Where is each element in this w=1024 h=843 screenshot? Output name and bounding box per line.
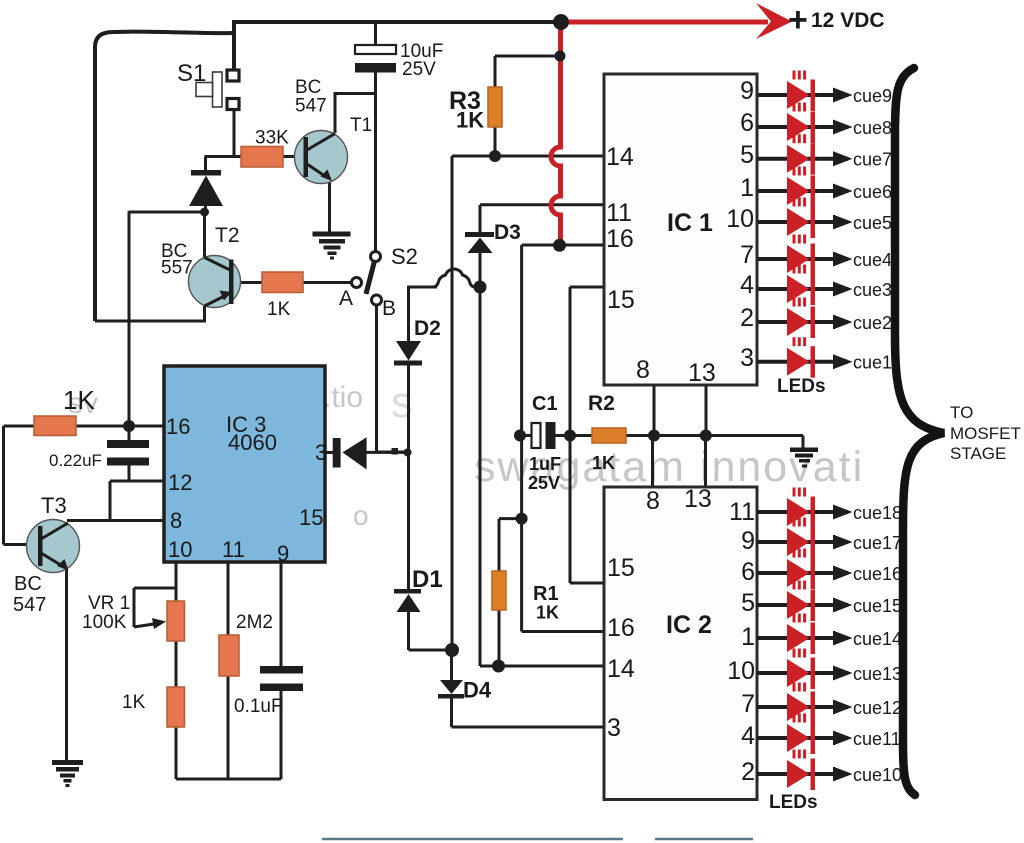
transistor T3 BC547 [27,520,80,573]
svg-text:1K: 1K [267,299,291,320]
wire C1 left stub [520,434,532,437]
svg-text:9: 9 [741,527,755,555]
diode anti T2 triangle [189,176,223,207]
diode D4 triangle [440,680,463,694]
wire D2-D1 vertical net [407,364,410,590]
svg-text:S2: S2 [391,244,418,269]
svg-text:9: 9 [740,77,754,105]
wire IC1 pin13 drop [705,385,708,436]
svg-text:LEDs: LEDs [777,376,826,397]
IC1 4017 box [604,74,757,385]
svg-text:BC: BC [14,573,42,595]
node diode T2 [200,208,209,217]
wire output cue13 [757,671,848,675]
wire D1 bottom to D4 node [409,611,453,650]
LED cue5 [787,208,810,236]
diode D3 bar [465,232,494,237]
svg-text:TO: TO [950,403,973,422]
LED cue4 rays [793,235,796,244]
svg-text:12 VDC: 12 VDC [811,9,885,32]
switch S2 contact top [371,252,381,262]
capacitor 0.22uF plates [107,440,149,448]
arrow cue13 [833,666,853,681]
svg-text:15: 15 [607,286,635,314]
svg-text:cue15: cue15 [853,596,902,616]
capacitor C1 1uF 25V plates [532,423,541,448]
LED cue10 rays [793,750,796,759]
arrow cue16 [833,566,853,581]
node supply top [553,14,569,30]
svg-text:cue17: cue17 [853,533,902,553]
LED cue18 rays [793,488,796,497]
svg-text:7: 7 [740,241,754,269]
wire output cue4 [758,257,848,261]
diode IC3 pin3 triangle [343,437,367,469]
svg-text:o: o [353,500,369,531]
node R3 bottom [489,150,501,162]
LED cue14 [787,624,810,652]
wire IC3 pin9 through 0.1uF [280,562,283,779]
LED cue12 [787,693,810,721]
switch S2 contact A [352,278,362,288]
arrow cue2 [833,315,853,330]
svg-text:11: 11 [222,537,245,562]
svg-text:1K: 1K [63,385,95,415]
svg-text:13: 13 [684,485,712,513]
wire T2 collector to left rail [95,320,205,323]
arrow cue7 [833,151,853,166]
svg-text:4: 4 [741,722,755,750]
svg-text:T2: T2 [215,224,240,247]
svg-text:T1: T1 [350,115,372,136]
wire IC2 pin13 up [704,436,707,488]
wire C1 to R2 [555,434,592,437]
svg-text:1K: 1K [536,603,559,623]
wire output cue12 [757,705,848,709]
svg-text:3: 3 [607,714,621,742]
wire T2 emitter to node [203,212,206,257]
red arrow head [756,3,792,39]
svg-text:D1: D1 [412,566,443,593]
arrow cue14 [833,631,853,646]
ground T3 emitter [52,760,83,765]
svg-text:7: 7 [741,690,755,718]
wire 10uF top stub [374,20,377,46]
wire 0.22uF stubs [128,426,131,482]
arrow cue5 [833,215,853,230]
LED cue17 rays [793,518,796,527]
svg-text:cue11: cue11 [853,729,901,749]
svg-text:547: 547 [13,594,46,616]
wire RC bottom rail [176,778,281,781]
svg-text:cue4: cue4 [853,250,892,270]
svg-text:STAGE: STAGE [950,444,1006,463]
svg-text:0.22uF: 0.22uF [49,451,102,470]
svg-text:cue13: cue13 [853,664,902,684]
wire VR1 wiper arrow [134,624,157,628]
svg-text:14: 14 [607,655,635,683]
junction square [392,448,399,455]
svg-text:1: 1 [740,174,754,202]
resistor 33K [241,147,283,168]
wire diode stub bottom [204,205,207,213]
resistor R3 1K [488,87,502,127]
svg-text:cue16: cue16 [853,564,902,584]
diode D3 triangle [468,238,493,254]
arrow cue12 [833,700,853,715]
svg-text:cue7: cue7 [853,150,892,170]
svg-text:3: 3 [315,440,327,465]
wire output cue18 [757,510,848,514]
LED cue8 [787,113,810,141]
diode D2 triangle [396,341,421,361]
resistor R1 1K [492,571,506,610]
svg-text:VR 1: VR 1 [88,593,130,614]
wire R1 bottom [498,609,501,666]
LED cue9 rays [793,71,796,80]
node R1 top jog [516,513,528,525]
arrow cue3 [833,282,853,297]
svg-text:557: 557 [161,258,193,279]
wire D3 cathode up to IC1 pin11 [480,205,604,233]
wire left rail curve [95,32,232,321]
wire output cue17 [757,540,848,544]
node D4 top [445,643,459,657]
svg-text:2: 2 [740,304,754,332]
node R2 right pin8 [648,430,660,442]
svg-text:2M2: 2M2 [236,612,273,633]
svg-text:5: 5 [740,141,754,169]
LED cue18 [787,498,810,526]
svg-text:6: 6 [740,109,754,137]
LED cue13 [787,659,810,687]
svg-text:IC 2: IC 2 [666,611,712,639]
wire IC1 pin15 net down to IC2 pin15 [570,287,604,583]
svg-text:S1: S1 [177,60,206,87]
diode D4 bar [438,694,464,699]
wire S2 A contact to 1K [303,281,353,284]
svg-text:cue2: cue2 [853,313,892,333]
svg-text:cue10: cue10 [853,765,902,785]
LED cue3 rays [793,265,796,274]
node supply IC1 pin16 [553,239,566,252]
svg-text:T3: T3 [41,493,67,518]
node pin3 diode to B net [404,448,412,456]
ground T1 emitter [313,232,351,237]
LED cue7 [787,145,810,173]
LED cue1 rays [793,337,796,346]
svg-text:11: 11 [729,498,755,526]
LED cue5 rays [793,198,796,207]
resistor 1K timing [167,687,185,727]
capacitor 0.1uF plates [260,666,303,674]
svg-text:16: 16 [606,225,634,253]
LED cue16 rays [793,549,796,558]
arrow cue9 [833,88,853,103]
svg-text:cue14: cue14 [853,629,902,649]
svg-text:1K: 1K [122,692,146,713]
wire diode stub top [204,157,207,172]
LED cue9 [787,81,810,109]
svg-text:cue12: cue12 [853,698,902,718]
wire R1 jog [499,519,522,572]
wire IC1 pin14 [452,155,604,158]
node C1 left [514,430,526,442]
svg-text:10: 10 [726,205,754,233]
svg-text:cue6: cue6 [853,182,892,202]
svg-text:10: 10 [168,537,192,562]
wire ground stub [802,436,805,450]
svg-text:D3: D3 [494,221,521,244]
LED cue10 [787,760,810,788]
svg-text:B: B [382,297,396,320]
diode D2 bar [394,361,422,366]
red vertical supply drop with hops [551,20,561,243]
LED cue2 rays [793,298,796,307]
wire S2 B down [375,304,378,452]
transistor T1 BC547 [295,131,348,184]
svg-text:D4: D4 [463,678,492,703]
svg-text:1uF: 1uF [529,454,561,474]
wire pin12 to pin8 jog [109,481,112,522]
wire IC1 pin16 to VDD vertical [522,245,604,632]
wire top supply rail [234,20,561,24]
wire T2 collector drop [203,306,206,323]
wire VR1 wiper loop [134,588,176,627]
svg-text:cue9: cue9 [853,86,892,106]
wire output cue5 [758,220,848,224]
svg-text:cue18: cue18 [853,503,902,523]
arrow cue17 [833,535,853,550]
wire node to T2 vertical [129,211,206,427]
wire D3 anode node down to IC2 pin14 [480,252,604,666]
wire output cue15 [757,603,848,607]
svg-text:16: 16 [166,414,190,439]
wire D2 anode up and right [409,287,438,342]
wire IC1 pin8 drop [653,385,656,436]
wire S1 bottom to 33K [205,110,242,158]
svg-text:MOSFET: MOSFET [950,424,1021,443]
arrow cue11 [833,731,853,746]
svg-text:16: 16 [607,614,635,642]
svg-text:33K: 33K [255,128,289,149]
wire R2 to ground [626,434,803,437]
wire output cue9 [758,93,848,97]
node R2 right pin13 [700,430,712,442]
wire 1K to pin16 node [4,425,165,428]
LED cue7 rays [793,134,796,143]
LED cue1 [787,348,810,376]
wire output cue16 [757,571,848,575]
svg-text:11: 11 [606,199,632,227]
LED cue2 [787,308,810,336]
svg-text:5: 5 [741,589,755,617]
IC3 4060 box [164,366,325,562]
wire output cue2 [758,320,848,324]
svg-text:15: 15 [607,554,635,582]
svg-text:cue8: cue8 [853,118,892,138]
wire D4 net to IC2 pin3 [452,650,605,727]
wire output cue14 [757,636,848,640]
svg-text:10: 10 [727,657,755,685]
potentiometer VR1 100K [167,601,185,641]
arrow cue15 [833,598,853,613]
transistor T2 BC557 [189,256,241,308]
svg-text:25V: 25V [402,59,436,80]
wire IC3 pin8 to T3 collector [67,519,164,522]
svg-text:12: 12 [168,470,192,495]
svg-text:A: A [339,287,353,310]
wire T1 collector up [335,94,376,134]
svg-text:.tio: .tio [323,381,363,414]
svg-text:3: 3 [740,344,754,372]
bottom divider lines [322,838,623,841]
wire output cue10 [757,772,848,776]
svg-text:14: 14 [606,143,634,171]
svg-text:cue3: cue3 [853,280,892,300]
LED cue6 rays [793,167,796,176]
wire T1 emitter down [328,178,331,232]
wire diode to B net [366,451,408,454]
wire R3 bottom node [494,126,497,156]
node IC3 pin16 [123,420,135,432]
LED cue12 rays [793,683,796,692]
svg-text:1: 1 [741,623,755,651]
switch S1 plunger [213,72,223,107]
svg-text:547: 547 [295,96,327,117]
LED cue3 [787,275,810,303]
svg-text:0.1uF: 0.1uF [234,696,283,717]
wire left drop to T3 base [4,426,39,545]
LED cue17 [787,528,810,556]
wire IC3 pin3 to diode [325,451,333,454]
arrow cue18 [833,505,853,520]
svg-text:8: 8 [646,487,660,515]
wire B corner to D2 bottom [375,451,409,454]
svg-text:15: 15 [299,505,323,530]
switch S1 contact bottom [227,99,239,110]
svg-text:9: 9 [277,541,289,566]
diode D1 triangle [397,594,421,612]
svg-text:4: 4 [740,271,754,299]
arrow cue1 [833,354,853,369]
svg-text:cue5: cue5 [853,213,892,233]
wire S1 top drop [232,20,236,71]
svg-text:25V: 25V [528,473,560,493]
node R1 bottom pin14 [492,660,505,673]
svg-text:2: 2 [741,758,755,786]
wire output cue6 [758,189,848,193]
svg-text:C1: C1 [532,393,558,415]
diode anti T2 bar [191,170,221,176]
brace to mosfet stage [895,68,944,795]
wire T2 base to 1K [233,281,262,284]
ground R2 net [790,448,818,453]
arrow cue10 [833,767,853,782]
wire output cue3 [758,287,848,291]
LED cue15 [787,591,810,619]
LED cue11 rays [793,714,796,723]
arrow cue4 [833,252,853,267]
svg-text:LEDs: LEDs [769,792,818,813]
wire output cue8 [758,125,848,129]
svg-text:1K: 1K [592,453,615,473]
switch S2 contact B [372,295,382,305]
resistor 2M2 [219,635,239,676]
LED cue11 [787,724,810,752]
svg-text:13: 13 [688,359,716,387]
svg-text:R2: R2 [588,392,615,415]
LED cue13 rays [793,649,796,658]
node VDD pin15 tap [564,430,576,442]
wire 33K to T1 base [283,155,304,158]
svg-text:8: 8 [636,356,650,384]
LED cue8 rays [793,103,796,112]
resistor 1K base T2 [262,272,303,293]
switch S2 lever [366,261,375,294]
node D3 anode [474,281,487,294]
svg-text:6: 6 [741,558,755,586]
wire 10uF bottom to S2 [374,72,377,253]
diode IC3 pin3 bar [333,438,341,468]
arrow cue6 [833,184,853,199]
wire T3 emitter to ground [65,568,68,761]
svg-text:100K: 100K [82,612,127,633]
arrow cue8 [833,120,853,135]
diode D1 bar [394,589,421,594]
wire IC3 pin11 through 2M2 [227,562,230,779]
red +12V rail [561,20,768,25]
svg-text:8: 8 [170,508,182,533]
LED cue14 rays [793,614,796,623]
svg-text:IC 1: IC 1 [667,209,713,237]
LED cue16 [787,559,810,587]
svg-text:D2: D2 [414,317,441,340]
switch S1 contact top [227,70,239,81]
svg-text:+: + [788,1,808,39]
LED cue15 rays [793,581,796,590]
wire R3 top from supply node [495,56,560,88]
resistor R2 1K [592,428,626,443]
wire IC2 pin8 up [651,436,654,488]
wire R3 node left and long drop [452,156,495,651]
LED cue4 [787,245,810,273]
wire output cue7 [758,157,848,161]
wire output cue11 [757,736,848,740]
capacitor 10uF 25V plates [355,45,396,54]
svg-text:1K: 1K [456,108,484,133]
wire output cue1 [758,360,848,364]
svg-text:4060: 4060 [228,430,277,455]
resistor 1K left [34,416,76,436]
svg-text:cue1: cue1 [853,353,892,373]
node supply R3 tap [555,51,566,62]
wire IC3 pin10 through VR1 and 1K [175,562,178,779]
LED cue6 [787,177,810,205]
wire hop over R3 line [434,269,474,287]
wire IC3 pin12 [110,480,164,483]
IC2 4017 box [604,487,757,800]
